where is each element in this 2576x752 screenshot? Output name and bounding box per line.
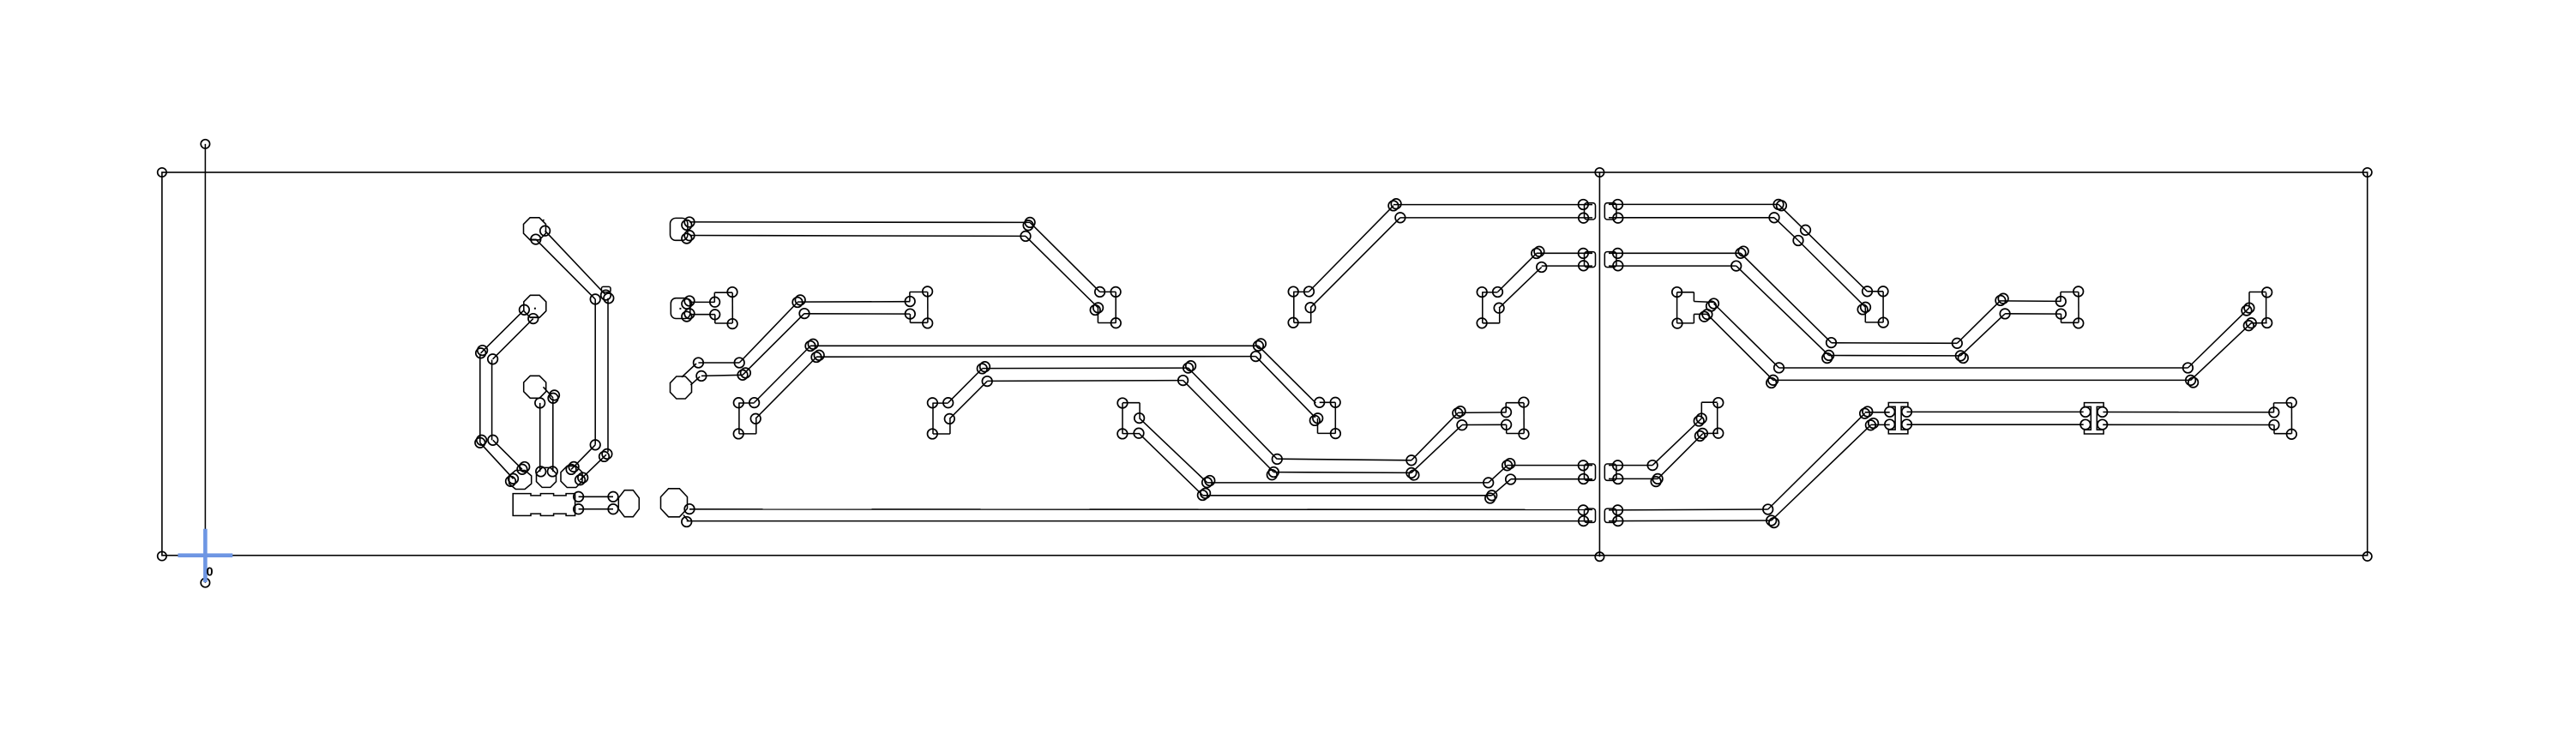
- wire long pair top 1: [689, 221, 1030, 224]
- wire E-1955 bot3: [1694, 313, 1707, 315]
- pad P793 drill dot: [679, 308, 681, 310]
- bend1467: [1254, 341, 1264, 352]
- wire jog diag a: [1489, 466, 1508, 483]
- wire R diag b2: [1798, 241, 1866, 308]
- Em-833 BR: [727, 319, 737, 329]
- bend2332 b: [1998, 293, 2008, 304]
- bend1196: [1020, 232, 1031, 242]
- wire Zm seg left: [1122, 403, 1123, 434]
- PC via2 b: [578, 472, 588, 483]
- wire R pair y295 2: [1609, 265, 1736, 267]
- wire E-1955 bot2: [1693, 314, 1694, 323]
- wire pair to div mid 2: [1511, 478, 1592, 480]
- PC via1 b: [569, 462, 579, 472]
- pad P2 drill dot: [534, 308, 536, 310]
- div pad L2 via1: [1579, 249, 1589, 259]
- bend1485: [1269, 467, 1279, 478]
- wire diag E1955b: [1707, 315, 1773, 381]
- ibeam-2441 via4: [2098, 419, 2108, 430]
- P794 via2: [696, 371, 707, 382]
- div pad L4: [1585, 508, 1596, 522]
- C4m-2643 ML b: [2242, 305, 2252, 316]
- div pad R4: [1604, 508, 1616, 522]
- wire C vert 2: [491, 360, 493, 441]
- wire Z-1087 seg left: [932, 403, 934, 434]
- Em-1756 BL: [1502, 420, 1512, 430]
- E-1955 R2 b: [1700, 311, 1710, 322]
- wire C4m-2643 jog top: [2249, 292, 2266, 293]
- div pad R3 via2: [1613, 474, 1623, 484]
- P3 via2 b: [550, 390, 560, 400]
- wire Em-1061 jog bottom: [910, 322, 927, 323]
- wire diag to C4-1538 b: [1255, 357, 1315, 418]
- wire vert 4: [552, 399, 554, 472]
- PB via2: [548, 466, 558, 477]
- Z-1508 TR: [1304, 286, 1315, 297]
- wire Em-833 jog up: [713, 292, 715, 302]
- vert2 end b: [599, 452, 610, 462]
- wire diag Z1087a: [948, 369, 983, 403]
- div pad R2 via1: [1613, 249, 1623, 259]
- Em-2651 BL: [2269, 420, 2279, 430]
- bend1933: [1652, 474, 1663, 484]
- wire diag down b: [1183, 381, 1274, 472]
- wire long bottom 1: [689, 508, 1592, 511]
- wire R diag up2 b: [2191, 323, 2252, 381]
- bend1402 b: [1201, 489, 1211, 499]
- wire pair y480 1: [1907, 411, 2084, 412]
- pad P793: [671, 298, 690, 319]
- wire C vert 1: [479, 354, 481, 443]
- C4-1282 TL: [1095, 287, 1105, 298]
- wire E-1955 top2: [1693, 292, 1694, 302]
- bend1791 b: [1534, 247, 1544, 257]
- P1 via A: [540, 226, 551, 236]
- wire R diag b1: [1774, 218, 1798, 241]
- div pad L3 via1: [1579, 460, 1589, 471]
- E-1955 R1 b: [1706, 301, 1717, 311]
- wire pair y429 1: [982, 367, 1188, 370]
- bend L: [590, 294, 600, 304]
- C4-1282 ML b: [1090, 305, 1100, 316]
- bend1735: [1484, 478, 1494, 488]
- bend2554: [2186, 376, 2196, 386]
- wire long mid pair 1: [810, 345, 1258, 346]
- wire R diag y295b: [1736, 266, 1829, 355]
- wire pair y481 1: [1458, 412, 1507, 414]
- wire diag to C4-1282 a: [1030, 222, 1100, 292]
- bend2074 b: [1777, 201, 1787, 211]
- wire R diag up a: [1957, 300, 2001, 343]
- C4-1538 ML b: [1310, 416, 1321, 426]
- wire R pair bot 2: [1609, 520, 1772, 522]
- wire E-1955 bot1: [1677, 322, 1694, 324]
- wire Em-2403 bar: [2078, 292, 2079, 323]
- origin cross: [178, 529, 233, 582]
- wire pair y563 1: [1207, 482, 1489, 484]
- wire P786 stub: [683, 515, 689, 522]
- divider top: [1595, 168, 1604, 177]
- C4-1538 TR: [1330, 398, 1340, 408]
- C4m-2003 ML b: [1694, 416, 1704, 426]
- Z-1728 TL: [1477, 287, 1487, 298]
- C4m-2643 ML: [2244, 303, 2254, 313]
- wire diag P1a: [545, 231, 606, 295]
- wire diag Z1508b: [1310, 218, 1400, 308]
- pad P786: [661, 489, 688, 517]
- bend1699: [1453, 408, 1463, 418]
- bend1145: [978, 364, 988, 374]
- wire Em-2651 bar: [2290, 403, 2292, 434]
- wire diag Z1087b: [949, 382, 987, 419]
- panel divider line: [1598, 172, 1600, 556]
- wire C4-2177 seg left: [1864, 307, 1866, 322]
- wire R pair bot 1: [1609, 508, 1768, 511]
- Em-2651 TR: [2286, 398, 2296, 408]
- wire P2 stub: [531, 316, 540, 318]
- Zm TL: [1117, 398, 1128, 408]
- bend2067: [1768, 376, 1779, 386]
- C4-1538 BR: [1331, 429, 1341, 439]
- bend2029 b: [1738, 246, 1748, 256]
- C4-2177 ML: [1861, 303, 1871, 313]
- wire diag up b: [743, 314, 804, 376]
- wire pair to div mid 1: [1508, 465, 1592, 466]
- pad bar-end: [618, 490, 639, 517]
- wire Em-1061 jog down: [909, 314, 911, 322]
- bar via1: [574, 492, 584, 502]
- bend1757 b: [1505, 459, 1515, 469]
- div pad R1 via1: [1613, 200, 1623, 210]
- bend2132: [1824, 351, 1834, 361]
- Zm BR: [1134, 428, 1144, 438]
- E-1955 BL: [1672, 318, 1682, 328]
- bend1151: [982, 376, 992, 387]
- wire C4-1538 seg top: [1320, 401, 1336, 403]
- bend1739 b: [1485, 493, 1496, 503]
- wire diag down a: [1189, 368, 1278, 459]
- div pad R3: [1604, 464, 1616, 480]
- wire line to Em833 a: [689, 301, 715, 303]
- wire Em-2651 jog bottom: [2274, 433, 2291, 435]
- bend2286: [1956, 351, 1966, 361]
- PB via1: [536, 466, 546, 477]
- Z-1087 TR: [943, 398, 954, 408]
- ibeam-2441 via1: [2080, 407, 2091, 418]
- div pad L1 via2: [1579, 213, 1589, 223]
- bend1201: [1025, 218, 1035, 228]
- Z-1508 TL: [1288, 286, 1298, 297]
- Cv1 top b: [478, 346, 488, 356]
- wire R diag mid a: [1652, 418, 1701, 466]
- bend2061: [1763, 504, 1773, 514]
- wire diag P2b: [493, 319, 533, 359]
- wire line y438: [701, 375, 743, 376]
- pad PC: [561, 466, 582, 488]
- wire line to Em833 b: [689, 314, 715, 316]
- wire C4m-2643 jog up: [2248, 292, 2250, 309]
- wire pair y295 2: [1542, 265, 1592, 267]
- P794 via1: [694, 358, 704, 368]
- wire Em-2651 jog up: [2273, 403, 2275, 412]
- Em-1061 ML: [905, 297, 915, 307]
- Em-1756 TR: [1519, 397, 1529, 407]
- bend1379: [1178, 376, 1189, 386]
- bend1407: [1202, 478, 1213, 488]
- P1 via B: [531, 234, 541, 244]
- wire pair y536 1: [1277, 459, 1411, 460]
- wire Zm seg top: [1122, 402, 1140, 404]
- C4-2177 BR: [1878, 317, 1888, 328]
- wire E-1955 top3: [1694, 302, 1713, 303]
- bend1464: [1251, 352, 1261, 362]
- Z-1087 MR: [945, 414, 955, 424]
- bend866: [737, 370, 748, 381]
- wire pair y563 2: [1202, 495, 1491, 496]
- div pad L4 via1: [1579, 505, 1589, 515]
- wire R pair mid 2: [1609, 478, 1658, 479]
- bend1645b: [1406, 468, 1417, 478]
- bend945 b: [808, 340, 818, 350]
- bend2024: [1731, 261, 1742, 271]
- wire edge line: [204, 144, 206, 583]
- C4-2177 TL: [1863, 286, 1873, 297]
- bend2181: [1866, 420, 1876, 430]
- Z-861 TL: [734, 398, 744, 408]
- wire Em-2651 jog down: [2273, 425, 2275, 434]
- wire C4m-2003 seg bottom: [1702, 432, 1718, 434]
- div pad R1 via2: [1613, 213, 1623, 223]
- div pad L3 via2: [1579, 474, 1589, 484]
- pad P3: [524, 376, 546, 398]
- bend1757: [1502, 460, 1513, 471]
- E-1955 R1: [1709, 298, 1719, 309]
- bend2174 b: [1863, 406, 1873, 417]
- wire R pair y400 2: [1829, 355, 1961, 357]
- wire bar line2: [579, 508, 613, 510]
- C4-1282 ML: [1093, 303, 1104, 313]
- wire diag up b2: [1411, 425, 1462, 473]
- P793 via2: [684, 309, 695, 319]
- C4m-2003 ML: [1696, 413, 1706, 424]
- bend1632: [1395, 213, 1405, 223]
- wire pair to div top 2: [1400, 217, 1592, 219]
- wire Z-1508 seg bottom: [1294, 322, 1311, 323]
- wire Z-861 seg left: [738, 403, 740, 434]
- Em-1756 BR: [1519, 429, 1529, 439]
- wire P1 stub: [530, 238, 537, 240]
- bend2029: [1736, 249, 1746, 259]
- wire bar line1: [579, 496, 613, 497]
- bend1645a: [1406, 455, 1417, 466]
- Zm MR: [1135, 413, 1145, 424]
- bend1489: [1273, 454, 1283, 465]
- wire Z-1087 seg right: [949, 418, 951, 434]
- bend2135: [1827, 338, 1837, 348]
- wire E-1955 top1: [1677, 292, 1694, 293]
- wire R pair top 2: [1609, 217, 1774, 219]
- wire R diag mid b: [1658, 434, 1702, 478]
- div pad R4 via2: [1613, 516, 1623, 526]
- wire diag to C4-1282 b: [1026, 236, 1098, 308]
- wire Em-2651 jog top: [2274, 402, 2292, 404]
- corner BL: [158, 551, 166, 560]
- bend945: [805, 341, 816, 352]
- wire pair y480 2: [1907, 424, 2084, 425]
- P3 via1: [535, 398, 545, 408]
- Z-861 BL: [733, 429, 743, 439]
- wire Em-833 jog bottom: [715, 322, 732, 324]
- Em-833 TR: [727, 287, 737, 298]
- C4m-2643 BL: [2247, 318, 2257, 328]
- div pad R2: [1604, 252, 1616, 268]
- wire Em-1756 jog top: [1506, 402, 1524, 404]
- bend1407 b: [1205, 476, 1215, 486]
- Em-2403 BL: [2056, 309, 2067, 319]
- wire Em-1756 bar: [1523, 403, 1525, 434]
- Em-2651 BR: [2287, 430, 2297, 440]
- Z-1728 BL: [1477, 318, 1487, 328]
- wire Z-1728 seg top: [1482, 292, 1497, 293]
- wire diag P2a: [481, 310, 525, 353]
- bend2551: [2183, 363, 2194, 373]
- bend930: [792, 298, 803, 308]
- wire R pair y351 2: [2005, 313, 2061, 315]
- Cv2 top: [488, 354, 498, 364]
- bend2332: [1995, 296, 2006, 306]
- wire C4m-2003 bar: [1717, 403, 1718, 433]
- C4m-2643 TR: [2262, 287, 2272, 298]
- PA via1 b: [520, 462, 530, 472]
- wire C4-1538 seg bottom: [1318, 432, 1336, 434]
- div pad R3 via1: [1613, 460, 1623, 471]
- div pad L2: [1585, 252, 1596, 268]
- ibeam-2441: [2085, 403, 2104, 434]
- corner TR: [2363, 168, 2372, 177]
- bend2554 b: [2188, 377, 2199, 388]
- wire Z-1728 seg bottom: [1483, 322, 1500, 324]
- wire R diag bot b: [1772, 425, 1871, 520]
- wire diag Zm b: [1139, 433, 1202, 495]
- wire Em-833 jog top: [714, 292, 732, 293]
- C4m-2003 TR: [1713, 398, 1724, 408]
- wire Z-861 seg right: [755, 418, 757, 434]
- wire vert 2: [607, 298, 609, 453]
- Z-1087 BL: [928, 429, 938, 439]
- bend1385 b: [1186, 361, 1196, 371]
- Em-1756 ML: [1502, 407, 1512, 418]
- bend1797: [1537, 262, 1547, 273]
- PA via1: [517, 465, 527, 475]
- bend2132 b: [1822, 353, 1833, 364]
- C4m-2643 BL b: [2244, 321, 2254, 331]
- C4m-2003 BL b: [1695, 431, 1706, 442]
- bend2181 b: [1869, 418, 1879, 429]
- wire long pair top 2: [689, 235, 1026, 238]
- wire Em-833 jog down: [714, 315, 716, 323]
- bend R3 square: [601, 286, 611, 292]
- pad P791: [671, 218, 688, 240]
- wire diag up a: [739, 303, 797, 364]
- wire diag to PC1: [571, 445, 595, 470]
- bend1402: [1198, 490, 1208, 501]
- wire pair y536 2: [1273, 472, 1411, 474]
- bend1699 b: [1455, 406, 1466, 417]
- pad P2: [524, 295, 546, 317]
- wire pair y480 4: [2103, 424, 2273, 425]
- bend1485 b: [1267, 470, 1278, 480]
- wire R diag up2 a: [2188, 308, 2249, 368]
- bend R1: [601, 290, 611, 300]
- PC via1: [566, 465, 576, 475]
- bend1624: [1388, 201, 1399, 211]
- div pad L2 via2: [1579, 261, 1589, 271]
- wire C4-2177 seg top: [1868, 291, 1884, 292]
- ibeam-2213 via1: [1885, 407, 1895, 418]
- mid2105: [1801, 226, 1811, 236]
- bend938: [799, 309, 810, 319]
- wire pair y481 2: [1462, 424, 1507, 425]
- bend2282: [1953, 339, 1963, 349]
- wire pair y429 2: [987, 380, 1183, 382]
- wire diag to PA1: [493, 440, 522, 469]
- wire C4-2177 seg right: [1882, 292, 1884, 322]
- divider bottom: [1595, 552, 1604, 561]
- wire E-1955 bar: [1676, 292, 1678, 323]
- pad PA: [509, 471, 532, 490]
- wire vert 3: [539, 403, 541, 472]
- wire Z-1508 seg top: [1293, 291, 1309, 292]
- wire diag Zm a: [1140, 418, 1207, 483]
- bend1624 b: [1391, 199, 1401, 209]
- Em-833 BL: [710, 310, 720, 320]
- bend1467 b: [1256, 339, 1267, 349]
- wire Em-1061 jog up: [909, 292, 911, 302]
- bend2065 b: [1769, 518, 1779, 528]
- wire Em-2403 jog top: [2061, 292, 2079, 293]
- P791 via1: [684, 217, 695, 227]
- wire diag Z1728b: [1499, 268, 1542, 309]
- bend R2: [604, 293, 614, 304]
- C4m-2003 BL: [1698, 429, 1708, 439]
- wire C4m-2003 jog top: [1701, 401, 1717, 403]
- wire R pair top 1: [1609, 203, 1779, 205]
- wire Z-1087 seg top: [932, 402, 948, 404]
- div pad R2 via2: [1613, 261, 1623, 271]
- wire Zm seg right-up: [1139, 403, 1141, 418]
- wire diag E1955a: [1714, 304, 1779, 368]
- wire Em-833 bar: [731, 292, 733, 323]
- wire R long pair 2: [1773, 379, 2191, 381]
- wire Em-2403 jog up: [2060, 292, 2061, 302]
- bend952 b: [814, 351, 824, 361]
- div pad R4 via1: [1613, 505, 1623, 515]
- bend1645b b: [1409, 470, 1419, 480]
- wire Em-1756 jog down: [1506, 424, 1508, 433]
- wire Z-1728 seg left: [1482, 292, 1484, 323]
- wire link1b: [1870, 424, 1889, 425]
- bar via3: [608, 492, 618, 502]
- C4-2177 TR: [1878, 286, 1888, 297]
- bar via2: [574, 504, 584, 514]
- P786 via2: [682, 517, 692, 527]
- Z-861 MR: [750, 414, 761, 424]
- Em-2403 ML: [2056, 297, 2067, 307]
- PC via2: [575, 475, 586, 485]
- Cv2 bot: [488, 436, 498, 446]
- wire diag to PC2: [581, 454, 607, 480]
- P2 via L: [520, 305, 530, 316]
